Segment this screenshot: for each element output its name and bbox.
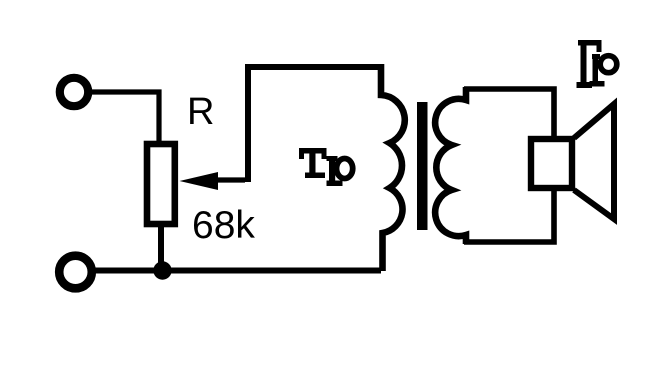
label Gr letter r [590,54,605,87]
label Tp letter T [299,148,327,178]
junction node [153,261,171,279]
label Tp letter p [327,156,343,186]
wire bottom rail [94,268,381,274]
wire secondary top to speaker [464,89,554,139]
resistor R 68k body [147,144,175,224]
terminal input top [60,78,88,106]
wire input top to potentiometer [92,92,159,146]
svg-text:R: R [187,91,214,133]
wire potentiometer bottom stub [158,224,164,270]
svg-text:68k: 68k [192,204,255,247]
label Gr letter G [577,40,602,88]
wire wiper to transformer primary top [248,67,381,182]
transformer Tp secondary winding [435,87,466,244]
speaker body [531,139,572,188]
wire secondary bottom to speaker [464,188,554,242]
label Gr letter r bowl [600,56,617,73]
speaker horn [574,104,614,219]
transformer Tp primary winding [381,64,405,271]
wiper arrowhead [180,172,219,190]
terminal input bottom [59,256,92,289]
label Tp letter p bowl [337,159,353,179]
wiper arm wire [214,177,245,182]
transformer core [417,102,428,230]
